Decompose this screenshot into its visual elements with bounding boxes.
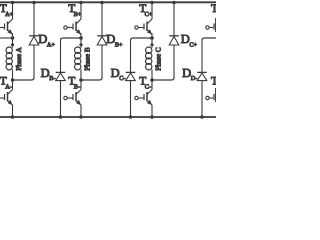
node: bottom rail junction of D_B- — [59, 115, 63, 119]
inductor: phase C winding (coil) — [146, 38, 153, 80]
svg-text:B+: B+ — [115, 41, 123, 48]
node: winding-top junction, phase B — [79, 36, 83, 40]
wire: winding-top wire of phase A to D_A- (clipped at left edge) — [0, 37, 13, 39]
node: bottom rail junction of D_D- — [200, 115, 204, 119]
diode D_A+ (freewheel, upper) — [29, 3, 39, 78]
svg-text:C-: C- — [145, 84, 151, 91]
svg-text:T: T — [211, 3, 216, 15]
svg-text:C+: C+ — [145, 11, 153, 18]
svg-text:B+: B+ — [74, 11, 82, 18]
node: winding-top junction, phase C — [150, 36, 154, 40]
node: bottom rail junction, T_C- emitter — [150, 115, 154, 119]
node: bottom rail junction of D_C- — [129, 115, 133, 119]
junction: coil top connection dot, phase A — [11, 43, 14, 46]
node: bottom rail junction, T_A- emitter — [11, 115, 15, 119]
node: top rail junction of D_A+ — [32, 1, 36, 5]
svg-text:T: T — [211, 76, 216, 88]
junction: coil top connection dot, phase C — [150, 43, 153, 46]
svg-text:D-: D- — [191, 75, 198, 82]
diode D_B- (freewheel, lower) — [56, 40, 66, 117]
wire: winding-bottom wire of phase B to D_B+ branch — [81, 78, 102, 81]
inductor: phase A winding (coil) — [6, 38, 13, 80]
inductor: phase B winding (coil) — [75, 38, 82, 80]
wire: winding-top wire of phase C to D_C- branch — [131, 38, 153, 41]
node: winding-bottom junction, phase B — [79, 78, 83, 82]
transistor T_A+ (upper IGBT) — [0, 3, 13, 39]
node: top rail junction of D_C+ — [172, 1, 176, 5]
diode D_D- (freewheel, lower) — [197, 40, 207, 117]
junction: coil top connection dot, phase B — [79, 43, 82, 46]
svg-text:Phase A: Phase A — [15, 47, 23, 71]
node: winding-bottom junction, phase C — [150, 78, 154, 82]
transistor T_C- (lower IGBT) — [135, 80, 152, 105]
wire: T_A- emitter to bottom rail — [12, 105, 14, 118]
transistor T_D- (lower IGBT, clipped at right edge) — [206, 88, 216, 102]
transistor T_C+ (upper IGBT) — [135, 3, 152, 39]
svg-text:Phase B: Phase B — [83, 47, 91, 71]
diode D_C+ (freewheel, upper) — [169, 3, 179, 78]
wire: winding-bottom wire of phase A to D_A+ branch — [13, 78, 35, 81]
node: top rail junction of D_B+ — [100, 1, 104, 5]
diode D_C- (freewheel, lower) — [126, 40, 136, 117]
svg-text:C+: C+ — [189, 41, 197, 48]
node: winding-bottom junction, phase A — [11, 78, 15, 82]
wire: T_C- emitter to bottom rail — [151, 105, 153, 118]
node: winding-top junction, phase A — [11, 36, 15, 40]
transistor T_D+ (upper IGBT, clipped at right edge) — [206, 18, 216, 32]
node: top rail junction, T_B+ collector — [79, 1, 83, 5]
svg-text:A-: A- — [5, 84, 12, 91]
svg-text:A+: A+ — [47, 41, 55, 48]
wire: top DC bus rail — [0, 1, 216, 3]
node: top rail junction, T_C+ collector — [150, 1, 154, 5]
wire: T_B- emitter to bottom rail — [80, 105, 82, 118]
node: bottom rail junction, T_B- emitter — [79, 115, 83, 119]
svg-text:Phase C: Phase C — [154, 47, 162, 71]
svg-text:B-: B- — [74, 84, 80, 91]
wire: winding-top wire of phase B to D_B- branch — [61, 38, 82, 41]
svg-text:B-: B- — [49, 75, 55, 82]
transistor T_B+ (upper IGBT) — [64, 3, 81, 39]
transistor T_A- (lower IGBT) — [0, 80, 13, 105]
svg-text:A+: A+ — [5, 11, 13, 18]
svg-text:C-: C- — [119, 75, 125, 82]
wire: winding-top wire of phase D to D_D- branch — [202, 38, 216, 41]
transistor T_B- (lower IGBT) — [64, 80, 81, 105]
wire: bottom DC bus rail — [0, 116, 216, 118]
wire: winding-bottom wire of phase C to D_C+ branch — [152, 78, 174, 81]
node: top rail junction, T_A+ collector — [11, 1, 15, 5]
diode D_B+ (freewheel, upper) — [97, 3, 107, 78]
